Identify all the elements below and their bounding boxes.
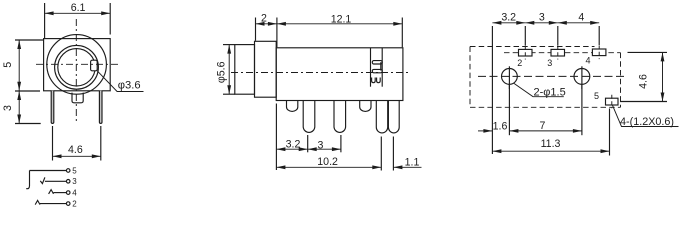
pin 4 terminal circle (66, 191, 70, 195)
contact bar lower (372, 69, 382, 72)
contact bottom tine 1 (372, 78, 376, 83)
svg-text:1.1: 1.1 (405, 156, 420, 168)
square body (44, 39, 111, 91)
switch slot left wall (370, 48, 372, 87)
svg-text:2-φ1.5: 2-φ1.5 (534, 86, 566, 98)
crosshair vertical (75, 19, 77, 123)
svg-text:5: 5 (72, 166, 77, 175)
pad 5 (606, 98, 619, 105)
top dim ext pad4 (598, 26, 600, 45)
ext pin b center (307, 135, 309, 152)
dim 11.3 line (492, 150, 609, 152)
dim 1.6 outside arrow (478, 130, 492, 132)
svg-text:3: 3 (547, 58, 552, 68)
dim 2 extension lines (255, 18, 257, 41)
dim 4.6 extension lines (52, 126, 54, 161)
dim 3.2 (fp) line (492, 22, 525, 24)
svg-text:7: 7 (540, 120, 546, 132)
body edge line (491, 26, 493, 154)
pin b (303, 101, 315, 133)
dim 3 bottom extension (15, 123, 41, 125)
leader 4-(1.2X0.6) (613, 105, 679, 126)
pad 5 center dash (611, 95, 613, 109)
outline dashed rect (470, 46, 595, 48)
barrel (235, 45, 255, 95)
dim 1.1 line (393, 166, 421, 168)
top dim ext pad3 (557, 26, 559, 46)
leader phi3.6 (97, 71, 143, 92)
pad 3 (551, 49, 565, 56)
svg-text:4: 4 (578, 12, 584, 24)
center nub (72, 93, 83, 103)
dim 3 (middle) line (308, 148, 341, 150)
svg-text:10.2: 10.2 (317, 156, 338, 168)
ext hole right down (581, 85, 583, 136)
pin stub d (360, 101, 371, 112)
contact bar upper (372, 61, 382, 64)
outer circle (bushing) (47, 35, 107, 95)
dim 7 line (509, 130, 582, 132)
pin 5 wire (30, 170, 67, 172)
pin c (334, 101, 346, 133)
svg-text:4.6: 4.6 (68, 144, 83, 156)
contact right joint (380, 62, 382, 70)
hole right (574, 69, 590, 85)
pad 3 center dash (557, 46, 559, 60)
pad row dashed line (504, 52, 621, 54)
ring outer (55, 45, 99, 89)
ring inner (hole phi3.6) (58, 49, 95, 86)
pin 5 terminal circle (66, 169, 70, 173)
pin 3 terminal circle (66, 180, 70, 184)
svg-text:5: 5 (2, 62, 14, 68)
dim 3.2 line (276, 148, 307, 150)
svg-text:3: 3 (539, 12, 545, 24)
dim phi5.6 extension bottom (223, 93, 235, 95)
pad 2 center dash (524, 46, 526, 60)
svg-text:1.6: 1.6 (493, 120, 508, 132)
left leg (51, 91, 54, 124)
pin e (376, 101, 387, 133)
dim 2 line (256, 23, 277, 25)
pad 4 center dash (598, 45, 600, 59)
svg-text:4: 4 (585, 56, 590, 66)
svg-text:φ5.6: φ5.6 (216, 61, 228, 83)
pin 2 terminal circle (66, 202, 70, 206)
svg-text:4.6: 4.6 (638, 74, 650, 89)
svg-text:2: 2 (72, 199, 77, 208)
dim 5 extension lines (15, 39, 43, 41)
dim 12.1 extension right (401, 18, 403, 48)
hole left crosshair (508, 66, 510, 89)
svg-text:4: 4 (72, 188, 77, 197)
pin 4 contact caret (49, 190, 54, 194)
dim 4 (fp) line (558, 22, 599, 24)
notch detail on ring (91, 60, 98, 71)
dim 3 (fp) line (525, 22, 558, 24)
ext pin c center (340, 135, 342, 152)
svg-text:3.2: 3.2 (501, 12, 516, 24)
dim 12.1 line (277, 23, 402, 25)
dim phi5.6 extension top (223, 44, 235, 46)
svg-text:2: 2 (517, 58, 522, 68)
svg-text:6.1: 6.1 (71, 2, 86, 14)
flange (255, 41, 277, 97)
ext pin f center (392, 137, 394, 171)
dim 4.6 line (53, 155, 101, 157)
pin 3 contact tick (40, 177, 45, 183)
ext pin e center (380, 137, 382, 171)
contact bottom tine 2 (377, 78, 381, 83)
svg-text:12.1: 12.1 (331, 13, 352, 25)
dim 4.6 line (662, 52, 664, 101)
sleeve hook (26, 171, 29, 189)
leader 2-phi1.5 (514, 83, 564, 97)
pin 3 wire (45, 180, 66, 182)
right leg (99, 91, 102, 124)
pad 4 (592, 49, 606, 56)
hole right crosshair (581, 66, 583, 89)
svg-text:4-(1.2X0.6): 4-(1.2X0.6) (620, 116, 674, 128)
pad 2 (519, 49, 533, 56)
dim 4.6 ext top (628, 51, 668, 53)
svg-text:3.2: 3.2 (286, 138, 301, 150)
center line (231, 72, 409, 74)
dim phi5.6 line (228, 45, 230, 95)
svg-text:φ3.6: φ3.6 (118, 80, 141, 92)
crosshair horizontal (36, 63, 118, 65)
ext 11.3 right (pad5) (609, 109, 611, 156)
hole left (502, 69, 518, 85)
centerline through holes (478, 75, 626, 77)
top dim ext pad2 (524, 26, 526, 46)
ext body-left below (275, 104, 277, 171)
ext hole left down (508, 85, 510, 136)
pin stub a (287, 101, 298, 112)
svg-text:3: 3 (72, 177, 77, 186)
dim 6.1 line (45, 12, 111, 14)
switch slot right wall (381, 48, 383, 87)
svg-text:11.3: 11.3 (541, 138, 561, 150)
main body (276, 48, 403, 101)
dim 5 line (18, 40, 20, 91)
svg-text:2: 2 (261, 13, 267, 25)
svg-text:3: 3 (2, 105, 14, 111)
pin f (388, 101, 399, 133)
pin 2 wire (40, 203, 66, 205)
svg-text:3: 3 (318, 140, 324, 152)
dim 6.1 extension lines (44, 3, 46, 38)
svg-text:5: 5 (594, 91, 599, 101)
pin 4 wire (54, 192, 67, 194)
dim 3 line (18, 91, 20, 124)
pin 2 contact caret (35, 200, 40, 204)
dim 4.6 ext bottom (620, 101, 667, 103)
dim 10.2 line (276, 166, 381, 168)
